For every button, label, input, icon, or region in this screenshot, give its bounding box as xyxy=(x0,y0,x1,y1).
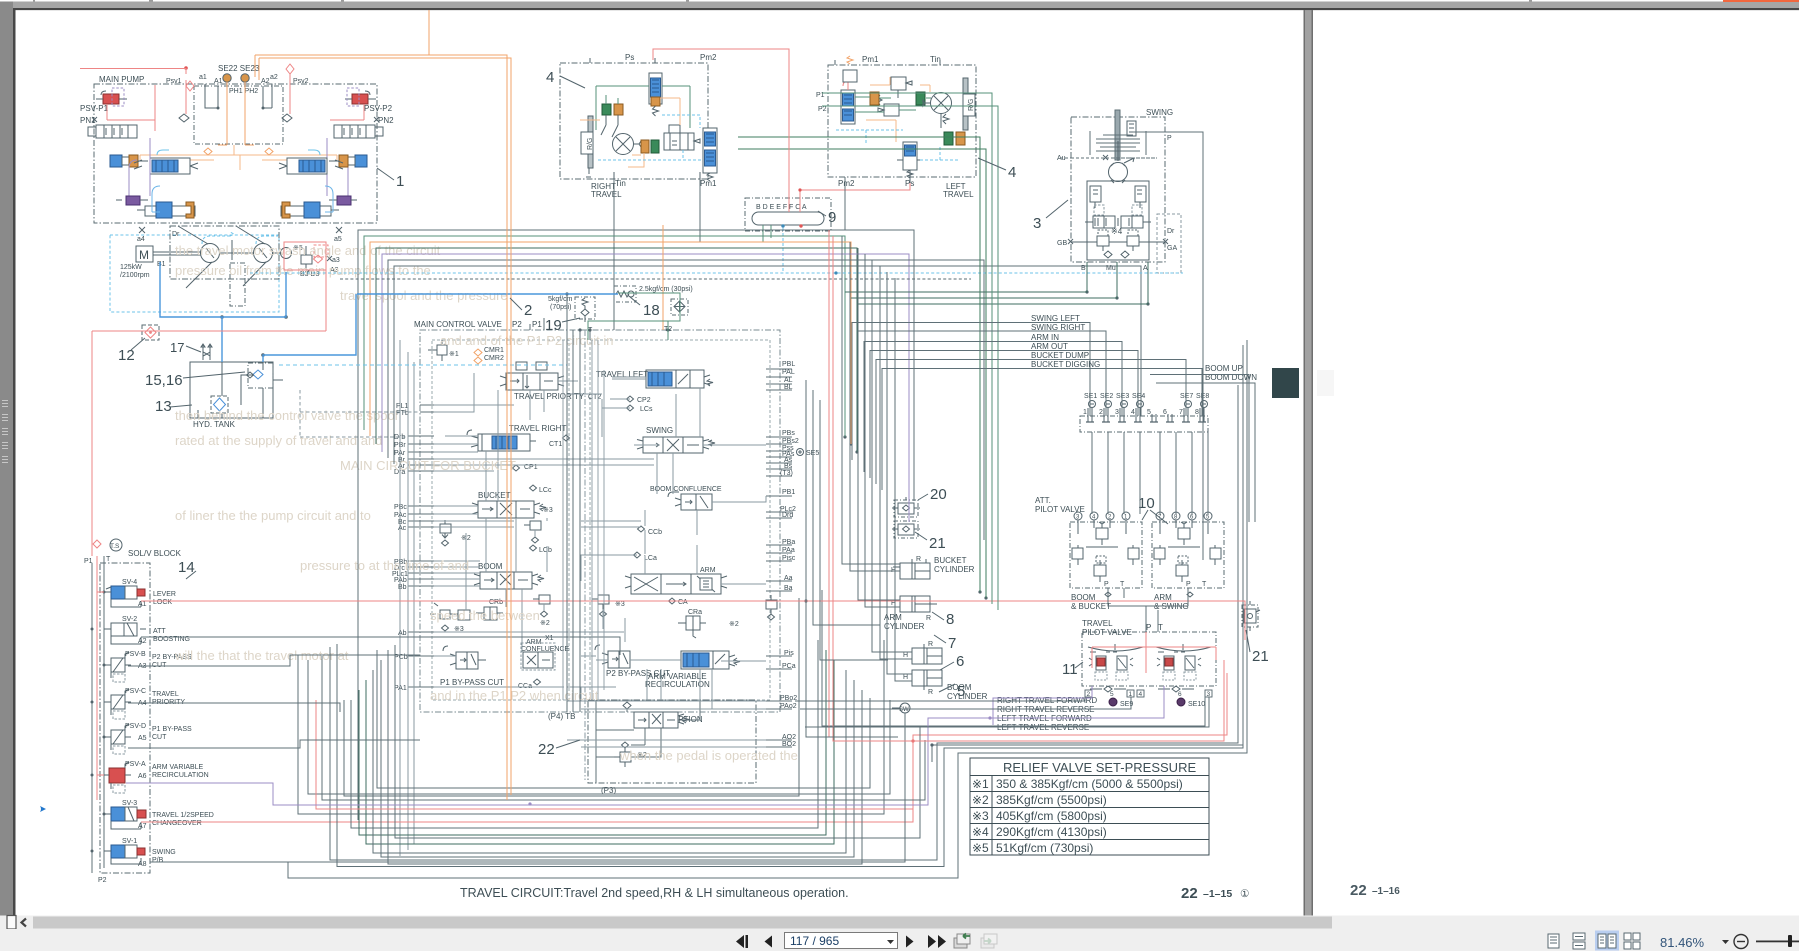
boom cylinder upper xyxy=(903,641,942,664)
SE to pilot drop 1 xyxy=(1091,432,1093,514)
green travel line C xyxy=(822,93,992,604)
orange drops into pump top xyxy=(255,55,259,80)
item9 oval dots xyxy=(781,224,802,227)
red stubs to valves xyxy=(97,592,104,775)
svg-text:Ac: Ac xyxy=(398,525,407,532)
svg-text:Drd: Drd xyxy=(782,512,793,519)
svg-text:350 & 385Kgf/cm (5000 & 5500ps: 350 & 385Kgf/cm (5000 & 5500psi) xyxy=(996,777,1183,791)
wire bottom bundle gray 814 xyxy=(298,640,884,814)
toolbar right: continuous icon xyxy=(1573,933,1585,949)
svg-text:①: ① xyxy=(1240,888,1250,900)
svg-text:H: H xyxy=(903,652,908,659)
LT: orange green shuttle boxes xyxy=(870,92,925,105)
page 2 white xyxy=(1313,10,1799,951)
bottom toolbar xyxy=(0,929,1799,951)
orange fragment top right xyxy=(1723,0,1799,2)
top white sliver row xyxy=(0,0,1799,2)
svg-text:18: 18 xyxy=(643,302,660,319)
svg-text:5: 5 xyxy=(1110,691,1114,698)
svg-text:P1 BY-PASS: P1 BY-PASS xyxy=(152,726,192,733)
svg-text:Psv2: Psv2 xyxy=(293,78,309,85)
CCa diamond xyxy=(518,679,541,690)
right ※3 ※2 labels xyxy=(615,601,739,628)
item 20 valve xyxy=(892,497,920,517)
swing GB GA x marks xyxy=(1068,239,1168,244)
red B3 D3 box xyxy=(284,242,326,270)
svg-text:BOOM CONFLUENCE: BOOM CONFLUENCE xyxy=(650,486,722,493)
svg-text:10: 10 xyxy=(1138,495,1155,512)
breather 17 xyxy=(201,344,212,360)
SE pin numbers xyxy=(1083,409,1199,416)
signal line swing left xyxy=(852,323,1090,461)
RT: travel motor circle xyxy=(613,134,642,155)
svg-text:a5: a5 xyxy=(334,236,342,243)
svg-text:4: 4 xyxy=(1139,691,1143,698)
LT: motor circle xyxy=(923,93,952,114)
SE sensor labels xyxy=(1084,393,1209,400)
svg-text:PSV-B: PSV-B xyxy=(125,651,146,658)
svg-text:T: T xyxy=(106,556,111,563)
right ※3 valve xyxy=(592,595,609,617)
svg-text:LCa: LCa xyxy=(644,555,657,562)
LT: upper white valves xyxy=(878,77,912,116)
svg-text:CYLINDER: CYLINDER xyxy=(947,692,988,701)
svg-text:TRAVEL 1/2SPEED: TRAVEL 1/2SPEED xyxy=(152,812,214,819)
LT: internal orange xyxy=(866,77,930,142)
svg-text:CMR2: CMR2 xyxy=(484,355,504,362)
svg-text:Psv1: Psv1 xyxy=(166,78,182,85)
blue annotation arrow on page 1 xyxy=(40,806,46,812)
pump inner dash-dot box xyxy=(194,86,283,144)
sol/v port dots xyxy=(91,591,106,853)
svg-text:A7: A7 xyxy=(138,823,147,830)
MCV right port labels xyxy=(780,361,799,748)
red left page loop xyxy=(80,69,186,132)
SE to pilot drop 7 xyxy=(1191,432,1193,514)
svg-text:6: 6 xyxy=(956,653,964,670)
ATT pilot left block internals xyxy=(1072,520,1139,582)
svg-text:PBL: PBL xyxy=(782,361,795,368)
wire bottom gray long under table 1 xyxy=(330,385,1238,860)
LT: red Ps line xyxy=(800,179,910,212)
svg-text:3: 3 xyxy=(1033,215,1041,232)
svg-text:GB: GB xyxy=(1057,240,1067,247)
svg-text:※2: ※2 xyxy=(729,621,739,628)
SE1-8 sensor dashed box xyxy=(1080,416,1208,432)
wire bottom gray long under table 2 xyxy=(337,345,1243,867)
svg-text:M: M xyxy=(139,248,149,262)
svg-text:/2100rpm: /2100rpm xyxy=(120,272,150,279)
signal line bucket digging xyxy=(882,369,1202,491)
svg-text:LCs: LCs xyxy=(640,406,653,413)
swing relief right xyxy=(1132,186,1146,215)
blue pump delivery line P1 xyxy=(357,293,618,295)
svg-text:Dr: Dr xyxy=(172,231,180,238)
right regulator striped valve xyxy=(334,125,383,138)
svg-text:Dr: Dr xyxy=(1167,228,1175,235)
diamond check left xyxy=(179,114,189,122)
tank inner dash-dot box (15,16) xyxy=(248,363,273,388)
svg-text:CP2: CP2 xyxy=(637,397,651,404)
svg-text:PSV-A: PSV-A xyxy=(125,761,146,768)
svg-text:BOOM UP: BOOM UP xyxy=(1205,364,1243,373)
big item numbers xyxy=(118,69,1269,758)
MCV P2 rail xyxy=(572,330,574,712)
main control valve outer dashed border xyxy=(420,330,780,712)
center verticals to cylinders 8 xyxy=(872,260,912,652)
svg-text:P: P xyxy=(1186,581,1191,588)
wire top bundle gray 1 xyxy=(358,230,914,820)
svg-text:SE3: SE3 xyxy=(1116,393,1129,400)
red check diamond a3 xyxy=(314,255,323,263)
svg-text:B1: B1 xyxy=(157,261,166,268)
svg-text:R/G: R/G xyxy=(587,138,594,150)
svg-text:※2: ※2 xyxy=(540,620,550,627)
swing labels xyxy=(1057,135,1177,272)
cyan dashed into MCV xyxy=(279,364,567,366)
travel pilot valve bodies right xyxy=(1157,652,1201,680)
svg-text:PBa: PBa xyxy=(782,539,795,546)
toolbar: previous-view icon xyxy=(954,934,970,949)
svg-text:the travel motor swash angle a: the travel motor swash angle and of the … xyxy=(175,243,441,258)
SE to pilot drop 8 xyxy=(1207,432,1209,514)
svg-text:(70psi): (70psi) xyxy=(550,304,571,311)
svg-text:P2: P2 xyxy=(818,106,827,113)
pump circle 2 xyxy=(254,244,273,263)
svg-text:AL: AL xyxy=(784,377,793,384)
LCb diamond label xyxy=(530,545,552,554)
travel pilot valve border 11 xyxy=(1082,632,1216,686)
wire bottom gray 857 xyxy=(381,660,854,857)
svg-text:and and of the P1 P2 circuit i: and and of the P1 P2 circuit in xyxy=(440,333,613,348)
svg-text:※4: ※4 xyxy=(1111,227,1123,236)
travel pilot P drop xyxy=(1146,606,1158,632)
a3 x mark xyxy=(327,256,332,261)
swing Dr dashed box xyxy=(1157,214,1181,273)
toolbar: next button xyxy=(906,936,914,948)
SE to pilot drop 5 xyxy=(1159,432,1161,514)
LT: P1 P2 labels xyxy=(816,92,827,113)
svg-text:※3: ※3 xyxy=(972,809,989,823)
orange main verticals xyxy=(255,55,507,800)
pilot relief valve xyxy=(301,246,312,273)
svg-text:speed the between: speed the between xyxy=(430,608,540,623)
light blue pilot curves xyxy=(152,186,333,212)
B3 D3 A3 labels xyxy=(293,245,340,278)
wire gray A5 xyxy=(128,740,420,748)
page gap xyxy=(1304,10,1306,916)
LCc diamond label xyxy=(530,485,552,494)
svg-text:Tin: Tin xyxy=(615,179,626,188)
svg-text:※5: ※5 xyxy=(972,841,989,855)
left MCV ladder verticals xyxy=(400,340,414,856)
svg-text:PILOT VALVE: PILOT VALVE xyxy=(1082,628,1132,637)
swing gear stack xyxy=(1090,131,1146,155)
svg-text:SV-2: SV-2 xyxy=(122,616,137,623)
MCV inner left dashed box xyxy=(432,340,569,700)
svg-text:PSV-C: PSV-C xyxy=(125,688,146,695)
ATT pilot port diamonds xyxy=(1105,592,1193,597)
svg-text:LCb: LCb xyxy=(539,547,552,554)
travel pilot port numbers xyxy=(1087,691,1211,698)
svg-text:51Kgf/cm (730psi): 51Kgf/cm (730psi) xyxy=(996,841,1093,855)
travel left valve xyxy=(646,370,713,388)
boom confluence valve xyxy=(650,486,722,510)
red pilot wires pump xyxy=(107,74,364,131)
svg-text:CRa: CRa xyxy=(688,609,702,616)
center verticals to cylinders 1 xyxy=(806,380,898,737)
arm cylinder xyxy=(891,596,937,622)
svg-text:ARM OUT: ARM OUT xyxy=(1031,342,1068,351)
travel pilot curved levers xyxy=(1088,644,1211,651)
wire purple left travel forward 2 xyxy=(993,686,1092,725)
svg-text:290Kgf/cm (4130psi): 290Kgf/cm (4130psi) xyxy=(996,825,1107,839)
a4 a5 Dr labels xyxy=(137,231,342,243)
svg-text:2: 2 xyxy=(524,302,532,319)
motor-pump unit blue dashed border xyxy=(110,235,279,312)
svg-text:SW: SW xyxy=(899,707,909,713)
MCV P1 P2 top entries xyxy=(530,294,668,340)
svg-text:SV-4: SV-4 xyxy=(122,579,137,586)
svg-text:B D E E F F C A: B D E E F F C A xyxy=(756,204,807,211)
right travel motor border 4 xyxy=(560,63,708,179)
item 9 collector box xyxy=(745,198,831,231)
motor M box xyxy=(136,246,153,262)
center verticals to cylinders 11 xyxy=(895,278,912,681)
svg-text:※2: ※2 xyxy=(972,793,989,807)
MCV center dash-dot divider xyxy=(584,330,586,780)
MCV extra center buses xyxy=(563,340,604,700)
wire right long 726 xyxy=(822,590,1205,726)
svg-text:19: 19 xyxy=(545,317,562,334)
toolbar right: zoom slider xyxy=(1756,941,1799,943)
sheet number 22-1-15 xyxy=(1181,885,1250,902)
arm valve xyxy=(625,567,727,594)
svg-text:MAIN CIRCUIT FOR BUCKET: MAIN CIRCUIT FOR BUCKET xyxy=(340,458,516,473)
PSV-C prop valve xyxy=(104,689,131,719)
swing P line xyxy=(1133,132,1203,560)
item 21 valve right xyxy=(1242,601,1260,631)
PSV-C labels xyxy=(125,688,185,707)
red travel pilot internals xyxy=(913,620,1224,741)
svg-text:P: P xyxy=(1146,623,1151,632)
table text xyxy=(972,760,1196,855)
svg-text:PBc: PBc xyxy=(394,504,407,511)
svg-text:A: A xyxy=(1143,265,1148,272)
green travel line A xyxy=(738,137,980,592)
swing motor circle xyxy=(1109,141,1128,183)
boom cylinder lower xyxy=(903,670,942,696)
RT: counterbalance center valve xyxy=(664,125,700,150)
svg-text:※1: ※1 xyxy=(449,351,459,358)
svg-text:1: 1 xyxy=(1129,691,1133,698)
dashed pilot lines to MCV left xyxy=(300,390,420,437)
SW pressure switch xyxy=(892,703,910,713)
svg-text:P1: P1 xyxy=(532,320,542,329)
svg-text:PAa: PAa xyxy=(782,547,795,554)
wire bottom bundle gray outer (A8) xyxy=(150,340,1247,878)
svg-text:20: 20 xyxy=(930,486,947,503)
orange inner control lines xyxy=(140,145,337,170)
left purple valve xyxy=(116,196,148,205)
svg-text:A1: A1 xyxy=(214,78,223,85)
pump drive diagonals xyxy=(178,226,266,288)
svg-text:of liner the the pump circuit: of liner the the pump circuit and to xyxy=(175,508,371,523)
att pilot P T drops xyxy=(1108,588,1188,606)
red top center to item 9 xyxy=(653,49,789,212)
signal line swing right xyxy=(858,331,1106,466)
ATT pilot valve left block border xyxy=(1070,522,1142,588)
PSV-D labels xyxy=(125,723,192,742)
svg-text:SWING: SWING xyxy=(152,849,176,856)
p2 option relief ※2 xyxy=(614,742,647,767)
page top dark border xyxy=(13,8,1799,10)
LT: spring below circle xyxy=(941,114,949,128)
svg-text:4: 4 xyxy=(546,69,554,86)
svg-text:SV-3: SV-3 xyxy=(122,800,137,807)
wire bottom gray 853 xyxy=(373,670,846,853)
swing inner body rect xyxy=(1087,181,1149,260)
wire cyan pilot dash long xyxy=(250,272,1183,274)
toolbar right: zoom out circle xyxy=(1734,935,1748,949)
svg-text:SE10: SE10 xyxy=(1188,701,1205,708)
svg-text:PBs: PBs xyxy=(782,430,795,437)
relief 19 labels xyxy=(548,296,573,311)
center verticals to cylinders 9 xyxy=(880,266,912,659)
swing return line A xyxy=(857,262,1148,304)
svg-text:2: 2 xyxy=(1087,691,1091,698)
svg-text:Pis: Pis xyxy=(784,650,794,657)
svg-text:15,16: 15,16 xyxy=(145,372,183,389)
left bottom cylinder xyxy=(137,202,195,218)
CAr diamond xyxy=(669,598,689,606)
svg-text:R: R xyxy=(926,615,931,622)
svg-text:A2: A2 xyxy=(138,638,147,645)
svg-text:(P4) TB: (P4) TB xyxy=(548,712,575,721)
svg-text:PILOT VALVE: PILOT VALVE xyxy=(1035,505,1085,514)
svg-text:3: 3 xyxy=(1115,409,1119,416)
RT: Pm1 spool valve xyxy=(703,128,717,181)
SE to pilot drop 2 xyxy=(1107,432,1109,514)
svg-text:BUCKET: BUCKET xyxy=(934,556,967,565)
svg-text:PAo2: PAo2 xyxy=(780,703,797,710)
svg-text:17: 17 xyxy=(170,340,184,355)
svg-text:8: 8 xyxy=(1195,409,1199,416)
orange from page top xyxy=(428,10,430,55)
SE pin posts xyxy=(1086,408,1206,422)
swing section valve xyxy=(637,437,715,453)
center verticals to cylinders 6 xyxy=(858,248,900,600)
svg-text:Pm2: Pm2 xyxy=(838,179,855,188)
svg-text:CMR1: CMR1 xyxy=(484,347,504,354)
CRb cluster xyxy=(430,599,503,633)
motor rating label xyxy=(120,264,150,279)
svg-text:CHANGEOVER: CHANGEOVER xyxy=(152,820,202,827)
gear shaft dash-dot box xyxy=(230,263,245,306)
svg-text:※3: ※3 xyxy=(543,507,553,514)
SE to pilot drop 4 xyxy=(1139,432,1141,514)
right purple valve xyxy=(329,196,357,205)
wire bottom pink 809 xyxy=(316,700,913,809)
svg-text:travel spool and the pressure: travel spool and the pressure xyxy=(340,288,508,303)
svg-text:SE2: SE2 xyxy=(1100,393,1113,400)
svg-text:A5: A5 xyxy=(138,735,147,742)
wire bottom teal 835 xyxy=(359,650,826,835)
wire bottom extra 838 xyxy=(395,645,920,838)
svg-text:SE7: SE7 xyxy=(1180,393,1193,400)
svg-text:Aa: Aa xyxy=(784,575,793,582)
relief 18 xyxy=(614,286,636,302)
svg-text:when the pedal is operated the: when the pedal is operated the xyxy=(619,748,798,763)
svg-text:5: 5 xyxy=(957,683,965,700)
svg-text:1: 1 xyxy=(1083,409,1087,416)
block name labels xyxy=(99,53,1257,795)
left servo cyl small xyxy=(110,155,148,167)
PN2 x mark xyxy=(374,117,379,122)
junction dots xyxy=(217,107,265,110)
ATT pilot P T labels xyxy=(1104,581,1207,588)
svg-text:6: 6 xyxy=(1178,691,1182,698)
ATT pilot circled ports right xyxy=(1156,512,1212,521)
horizontal scrollbar row xyxy=(0,916,1799,930)
relief 19 xyxy=(575,297,595,322)
wire bottom extra 800 xyxy=(322,656,925,800)
swing counterbalance row xyxy=(1085,216,1151,228)
svg-text:Pm1: Pm1 xyxy=(862,55,879,64)
sol/v red P1 diamond xyxy=(93,540,101,548)
svg-text:11: 11 xyxy=(1062,661,1078,678)
svg-text:CYLINDER: CYLINDER xyxy=(884,622,925,631)
swing bottom diamonds xyxy=(1104,251,1129,258)
svg-text:T: T xyxy=(1202,581,1207,588)
CT1 CP1 labels xyxy=(524,441,562,471)
relief valve set-pressure table xyxy=(970,758,1209,855)
svg-text:MAIN CONTROL VALVE: MAIN CONTROL VALVE xyxy=(414,320,502,329)
svg-text:X1: X1 xyxy=(545,635,554,642)
svg-text:SE4: SE4 xyxy=(1132,393,1145,400)
svg-text:RECIRCULATION: RECIRCULATION xyxy=(152,772,209,779)
PSV-A prop valve red xyxy=(104,762,131,793)
svg-text:LEVER: LEVER xyxy=(153,591,176,598)
svg-text:7: 7 xyxy=(1179,409,1183,416)
svg-text:CRb: CRb xyxy=(489,599,503,606)
svg-text:1: 1 xyxy=(396,173,404,190)
SV-3 labels xyxy=(122,800,214,830)
PSV-P1 red solenoid valve xyxy=(96,88,127,106)
PSV-B labels xyxy=(125,651,192,670)
left swash blue valve xyxy=(134,150,198,174)
pump arrows xyxy=(206,248,267,258)
svg-text:GA: GA xyxy=(1167,245,1177,252)
svg-text:3: 3 xyxy=(1207,691,1211,698)
orange oval drop xyxy=(662,225,664,330)
svg-text:A8: A8 xyxy=(138,861,147,868)
swing shaft xyxy=(1115,110,1120,160)
svg-text:405Kgf/cm (5800psi): 405Kgf/cm (5800psi) xyxy=(996,809,1107,823)
sol/v left rails xyxy=(92,556,104,873)
SV-4 solenoid valve xyxy=(104,586,145,607)
wire gray A4 xyxy=(128,703,340,712)
svg-text:※3: ※3 xyxy=(615,601,625,608)
green relief loop MCV top xyxy=(588,293,680,340)
svg-text:AO2: AO2 xyxy=(782,734,796,741)
svg-text:RELIEF VALVE SET-PRESSURE: RELIEF VALVE SET-PRESSURE xyxy=(1003,760,1196,775)
LT: top relief w spring xyxy=(843,56,857,82)
CMR1 CMR2 labels xyxy=(449,347,504,362)
right small relief pair xyxy=(766,595,777,620)
bucket aux relief pair xyxy=(524,521,541,543)
PSV-B prop valve xyxy=(104,652,131,682)
